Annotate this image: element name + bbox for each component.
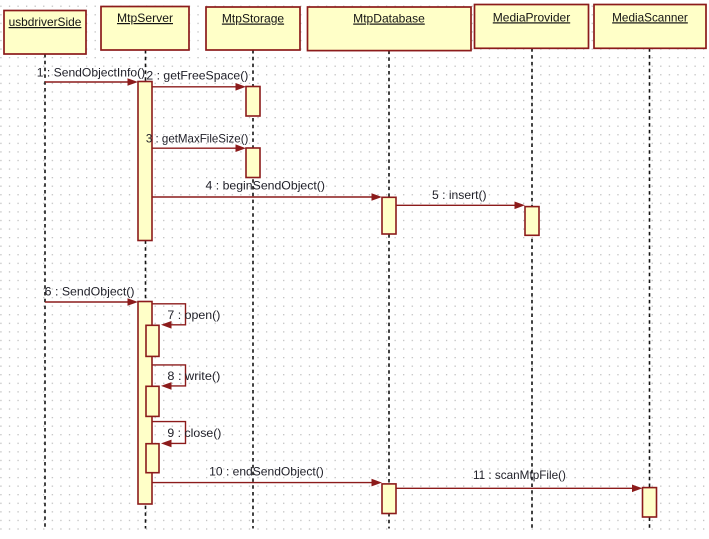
svg-text:MtpStorage: MtpStorage — [222, 12, 285, 26]
svg-text:8 : write(): 8 : write() — [167, 369, 220, 383]
svg-text:MtpServer: MtpServer — [117, 11, 173, 25]
label message 10 — [209, 464, 324, 478]
label message 9 — [167, 426, 221, 440]
lifeline (dashed) MtpStorage — [252, 50, 254, 529]
lifeline (dashed) MediaScanner — [649, 48, 651, 528]
lifeline (dashed) usbdriverSide — [44, 54, 46, 529]
lifeline head box MediaProvider — [475, 5, 589, 49]
lifeline head box usbdriverSide — [4, 11, 86, 55]
lifeline head box MtpDatabase — [308, 7, 472, 51]
label message 11 — [473, 468, 566, 482]
label message 1 — [37, 66, 145, 80]
message 5 arrow insert — [396, 202, 525, 210]
lifeline head box MtpStorage — [206, 7, 300, 50]
activation bar MtpStorage #1 — [246, 87, 260, 117]
svg-text:5 : insert(): 5 : insert() — [432, 188, 487, 202]
lifeline head box MtpServer — [101, 7, 189, 51]
activation bar MtpServer #2 — [138, 302, 152, 505]
lifeline (dashed) MediaProvider — [531, 48, 533, 528]
label message 8 — [167, 369, 220, 383]
label message 7 — [167, 308, 220, 322]
message 6 arrow SendObject — [45, 298, 138, 306]
svg-text:1 : SendObjectInfo(): 1 : SendObjectInfo() — [37, 66, 145, 80]
svg-text:3 : getMaxFileSize(): 3 : getMaxFileSize() — [146, 132, 249, 146]
lifeline (dashed) MtpServer — [145, 50, 147, 529]
activation bar MediaProvider — [525, 207, 539, 236]
activation bar MtpStorage #2 — [246, 148, 260, 178]
activation bar MtpServer nested open — [146, 325, 159, 356]
activation bar MtpServer #1 — [138, 82, 152, 241]
message 7 self-call open — [152, 304, 186, 329]
message 3 arrow getMaxFileSize — [152, 144, 246, 152]
svg-text:MediaProvider: MediaProvider — [493, 10, 570, 24]
message 1 arrow SendObjectInfo — [45, 78, 138, 86]
lifeline head box MediaScanner — [594, 5, 706, 49]
message 2 arrow getFreeSpace — [152, 83, 246, 91]
svg-text:9 : close(): 9 : close() — [167, 426, 221, 440]
label message 5 — [432, 188, 487, 202]
lifeline (dashed) MtpDatabase — [388, 51, 390, 529]
label message 4 — [206, 179, 326, 193]
activation bar MtpServer nested close — [146, 444, 159, 473]
svg-text:11 : scanMtpFile(): 11 : scanMtpFile() — [473, 468, 566, 482]
label message 3 — [146, 132, 249, 146]
activation bar MtpServer nested write — [146, 386, 159, 416]
svg-text:7 : open(): 7 : open() — [167, 308, 220, 322]
svg-text:usbdriverSide: usbdriverSide — [9, 15, 82, 29]
svg-text:10 : endSendObject(): 10 : endSendObject() — [209, 464, 324, 478]
message 8 self-call write — [152, 365, 186, 390]
label message 6 — [45, 284, 135, 298]
message 4 arrow beginSendObject — [152, 193, 382, 201]
activation bar MediaScanner — [643, 488, 657, 517]
svg-text:MediaScanner: MediaScanner — [612, 10, 688, 24]
message 11 arrow scanMtpFile — [396, 485, 643, 493]
message 9 self-call close — [152, 422, 186, 448]
activation bar MtpDatabase #1 — [382, 197, 396, 234]
svg-text:MtpDatabase: MtpDatabase — [353, 12, 425, 26]
svg-text:6 : SendObject(): 6 : SendObject() — [45, 284, 135, 298]
message 10 arrow endSendObject — [152, 479, 382, 487]
activation bar MtpDatabase #2 — [382, 484, 396, 514]
svg-text:2 : getFreeSpace(): 2 : getFreeSpace() — [146, 69, 248, 83]
label message 2 — [146, 69, 248, 83]
svg-text:4 : beginSendObject(): 4 : beginSendObject() — [206, 179, 326, 193]
